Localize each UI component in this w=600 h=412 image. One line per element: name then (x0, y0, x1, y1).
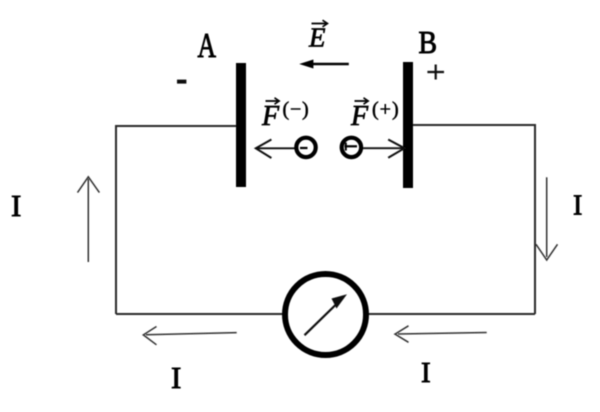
svg-text:I: I (171, 360, 181, 395)
svg-text:I: I (11, 188, 21, 223)
svg-text:I: I (421, 357, 431, 389)
svg-text:B: B (419, 24, 438, 60)
svg-text:F: F (261, 101, 280, 132)
svg-text:I: I (573, 191, 582, 222)
svg-text:A: A (198, 26, 217, 65)
svg-text:(+): (+) (372, 99, 400, 121)
svg-text:F: F (350, 101, 369, 132)
svg-text:(−): (−) (283, 99, 310, 121)
